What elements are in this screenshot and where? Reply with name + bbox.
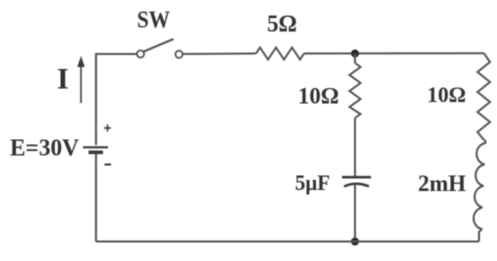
inductor L1 2mH [474,140,486,233]
svg-text:SW: SW [137,8,170,34]
wire middle branch between resistor and capacitor [354,118,356,177]
wire bottom rail [96,241,479,243]
capacitor C1 5uF [342,177,371,186]
wire middle branch upper [354,54,356,64]
node top junction [351,50,359,58]
wire top rail left segment [95,53,137,55]
svg-text:I: I [57,63,69,96]
wire left vertical [95,54,97,145]
node bottom junction [351,238,359,246]
resistor R1 5ohm [256,48,304,60]
wire left vertical lower [95,153,97,242]
wire middle branch lower [354,185,356,242]
wire top rail right segment [304,52,484,54]
svg-text:10Ω: 10Ω [427,82,466,107]
svg-text:2mH: 2mH [418,171,466,196]
wire right branch lower [478,231,480,242]
battery minus sign [105,164,112,166]
current arrow I [77,56,85,103]
resistor R3 10ohm right [478,53,491,139]
resistor R2 10ohm middle [350,63,361,118]
wire top rail middle segment [183,53,256,56]
switch SW [137,39,183,58]
svg-text:E=30V: E=30V [10,136,80,162]
battery plus sign [104,125,111,132]
battery E short plate [89,151,104,155]
battery E long plate [83,146,108,148]
svg-text:5μF: 5μF [295,170,330,195]
svg-text:5Ω: 5Ω [267,12,297,38]
svg-text:10Ω: 10Ω [298,84,339,109]
